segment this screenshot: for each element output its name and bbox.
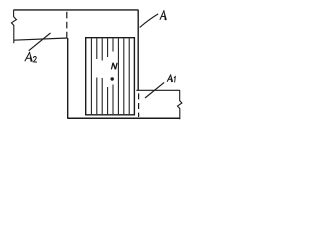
label N (number of turns) [111, 63, 117, 70]
coil hatch line 8 [128, 38, 130, 114]
section slash for A1 [145, 82, 164, 98]
core left cut edge with break symbol [11, 10, 16, 43]
section slash for A2 [29, 33, 51, 51]
coil hatch line 7 [123, 38, 125, 114]
core center limb right edge [137, 10, 139, 91]
coil hatch line 6 [117, 38, 119, 114]
label A2 [25, 52, 37, 62]
dashed boundary between yoke and limb (top left) [66, 12, 68, 39]
coil hatch line 3 (broken at label) [101, 38, 103, 114]
label A1 [167, 74, 175, 82]
polarity dot [111, 77, 114, 80]
leader line to label A [140, 14, 159, 28]
label A [160, 10, 167, 20]
coil hatch line 2 (broken at label) [96, 38, 98, 114]
dashed boundary between yoke and limb (bottom right) [138, 93, 140, 117]
core top yoke lower outline [14, 38, 68, 40]
coil hatch line 1 [90, 38, 92, 114]
core right cut edge with break symbol [178, 90, 182, 119]
core center limb left edge [67, 38, 69, 119]
coil hatch line 4 (broken at label) [107, 38, 109, 114]
coil winding rectangle [86, 38, 135, 115]
coil hatch line 5 (broken at label) [112, 38, 114, 114]
core top yoke upper outline [14, 9, 139, 11]
core bottom yoke upper outline [136, 89, 180, 91]
core bottom outline [68, 117, 180, 119]
